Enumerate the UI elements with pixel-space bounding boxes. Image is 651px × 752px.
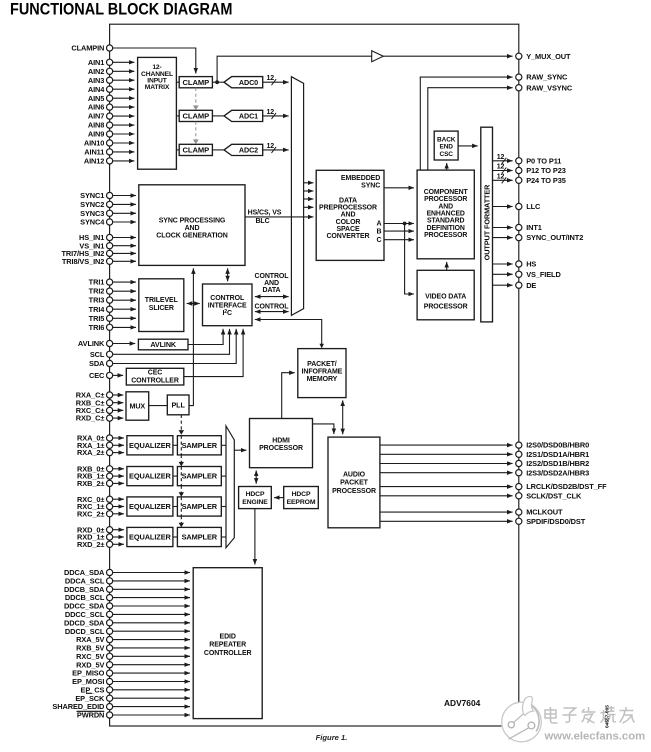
svg-text:CLAMPIN: CLAMPIN [71,44,104,53]
pin RXB_1 [107,473,113,479]
svg-text:I2C: I2C [222,309,232,317]
svg-text:CONTROL: CONTROL [255,273,290,280]
svg-text:OUTPUT FORMATTER: OUTPUT FORMATTER [482,184,491,261]
video input mux bar [291,77,303,316]
svg-text:SYNC2: SYNC2 [80,200,104,209]
svg-text:ADV7604: ADV7604 [444,698,481,708]
svg-text:EQUALIZER: EQUALIZER [129,533,172,542]
wire AVLINK to I2C [188,329,223,345]
block equalizer A [127,436,173,455]
svg-text:EQUALIZER: EQUALIZER [129,441,172,450]
block sync processing and clock generation [139,185,245,266]
pin SCLK/DST_CLK [516,493,522,499]
svg-text:12: 12 [497,154,505,161]
wire CEC pin to controller [113,374,123,376]
svg-text:PROCESSOR: PROCESSOR [424,196,467,203]
dashed clamp chain arrows [195,88,197,108]
pin RXC_C [107,407,113,413]
svg-text:MCLKOUT: MCLKOUT [526,508,563,517]
pin I2S3/DSD2A/HBR3 [516,470,522,476]
pin DDCB_SDA [107,586,113,592]
pin RAW_VSYNC [516,85,522,91]
svg-text:SCL: SCL [90,350,105,359]
pin AIN9 [107,131,113,137]
svg-text:AIN12: AIN12 [84,157,104,166]
dashed clock through sampler [180,467,182,486]
pin TRI6 [107,324,113,330]
svg-text:CEC: CEC [89,371,105,380]
watermark chinese characters [545,707,558,723]
svg-text:AND: AND [264,280,279,287]
block sampler C [177,497,221,516]
svg-text:AIN3: AIN3 [88,76,104,85]
pin SYNC_OUT/INT2 [516,235,522,241]
wire equalizer to sampler C [173,506,178,508]
wires SYNC1-SYNC4 [113,195,136,197]
wire control bus to mux [255,311,289,313]
svg-text:12: 12 [497,164,505,171]
wire HDMI processor to audio packet processor [313,424,334,434]
pin SCL [107,351,113,357]
svg-text:Figure 1.: Figure 1. [316,733,348,742]
svg-text:TRILEVEL: TRILEVEL [145,297,179,304]
svg-text:FUNCTIONAL BLOCK DIAGRAM: FUNCTIONAL BLOCK DIAGRAM [10,0,232,18]
hdmi channel mux bar [226,426,234,548]
svg-text:12: 12 [267,75,275,82]
pin AIN7 [107,113,113,119]
svg-text:VIDEO DATA: VIDEO DATA [425,294,466,301]
wire HS [493,263,513,265]
svg-text:04557-005: 04557-005 [605,705,611,728]
wire HDCP engine to EDID controller [254,509,256,565]
pin P24 TO P35 [516,177,522,183]
buffer amp on Y_MUX_OUT [372,51,384,62]
svg-text:EDID: EDID [220,633,236,640]
svg-text:MEMORY: MEMORY [307,376,338,383]
wires AIN1-AIN12 to input matrix [113,61,135,63]
pin RXA_0 [107,435,113,441]
wires audio outputs [380,444,513,446]
svg-text:STANDARD: STANDARD [427,218,464,225]
pin VS_IN1 [107,243,113,249]
wire CEC controller to I2C [184,329,243,377]
pin I2S2/DSD1B/HBR2 [516,460,522,466]
pin SHARED_EDID [107,704,113,710]
svg-text:DE: DE [526,281,536,290]
pin TRI7/HS_IN2 [107,250,113,256]
svg-text:P12 TO P23: P12 TO P23 [526,166,566,175]
clamp block CLAMP0 [179,77,212,88]
svg-text:SYNC3: SYNC3 [80,209,104,218]
svg-text:SLICER: SLICER [149,305,174,312]
svg-text:EQUALIZER: EQUALIZER [129,502,172,511]
block trilevel slicer [139,279,184,332]
wire CLAMP2 to ADC2 [212,149,224,151]
wire control and data bus to mux [255,296,289,298]
pin EP_CS [107,687,113,693]
wires RXB pins to equalizer [113,468,124,470]
svg-text:ENHANCED: ENHANCED [427,211,465,218]
svg-text:I2S0/DSD0B/HBR0: I2S0/DSD0B/HBR0 [526,441,589,450]
pin RXB_5V [107,645,113,651]
pin AIN10 [107,140,113,146]
block PLL [167,395,189,415]
pin AIN6 [107,104,113,110]
block AVLINK [138,339,188,350]
svg-text:HS: HS [526,260,536,269]
svg-text:ENGINE: ENGINE [242,499,268,506]
svg-text:PROCESSOR: PROCESSOR [332,488,376,495]
wire RAW_VSYNC [428,88,513,170]
svg-text:RXD_2±: RXD_2± [77,540,104,549]
wire A to component processor [384,223,414,225]
pin RXB_2 [107,480,113,486]
svg-text:PACKET: PACKET [340,480,368,487]
svg-text:SAMPLER: SAMPLER [182,472,218,481]
adc block ADC0 [224,77,263,88]
svg-text:C: C [377,237,382,244]
pin RAW_SYNC [516,74,522,80]
svg-text:PROCESSOR: PROCESSOR [424,304,468,311]
svg-text:SYNC PROCESSING: SYNC PROCESSING [159,217,226,224]
wire hdmi mux to hdmi processor [234,449,246,451]
svg-text:SCLK/DST_CLK: SCLK/DST_CLK [526,491,582,500]
pin RXD_0 [107,527,113,533]
pin TRI3 [107,297,113,303]
wires RXD pins to equalizer [113,529,124,531]
pin AIN12 [107,158,113,164]
pin DDCD_SCL [107,628,113,634]
block equalizer C [127,497,173,516]
wire SDA to I2C [113,329,237,364]
pin SPDIF/DSD0/DST [516,518,522,524]
svg-text:DEFINITION: DEFINITION [427,225,465,232]
dashed clock through sampler [180,497,182,516]
svg-text:TRI8/VS_IN2: TRI8/VS_IN2 [62,257,104,266]
pin AIN5 [107,95,113,101]
svg-text:12: 12 [267,143,275,150]
wires HS_IN1 VS_IN1 TRI7/HS_IN2 TRI8/VS_IN2 [113,237,136,239]
pin AIN8 [107,122,113,128]
block MUX [126,392,149,420]
svg-text:CLAMP: CLAMP [183,78,210,87]
pin RXB_C [107,400,113,406]
wire sync processing to control interface bidirectional [227,268,229,281]
block audio packet processor [328,437,380,528]
svg-text:ADC1: ADC1 [239,112,258,121]
svg-text:SAMPLER: SAMPLER [182,533,218,542]
pin LRCLK/DSD2B/DST_FF [516,484,522,490]
wire Y_MUX_OUT line [217,56,372,82]
svg-text:INFOFRAME: INFOFRAME [302,369,343,376]
svg-text:TRI1: TRI1 [89,278,105,287]
pin I2S0/DSD0B/HBR0 [516,442,522,448]
pin DDCC_SCL [107,611,113,617]
pin DDCB_SCL [107,595,113,601]
pin RXD_5V [107,662,113,668]
svg-text:COLOR: COLOR [336,219,361,226]
svg-text:TRI4: TRI4 [89,305,106,314]
wire ADC0 12-bit bus to mux [263,81,289,83]
svg-text:AIN9: AIN9 [88,130,104,139]
wire INT1 [493,227,513,229]
pin Y_MUX_OUT [516,53,522,59]
svg-text:EQUALIZER: EQUALIZER [129,472,172,481]
block HDCP engine [239,487,272,509]
pin RXC_5V [107,653,113,659]
wire C to component processor [384,239,414,241]
junction dot on A bus [403,222,407,226]
pin DDCA_SCL [107,578,113,584]
svg-text:LLC: LLC [526,202,541,211]
pin TRI5 [107,315,113,321]
pin LLC [516,203,522,209]
wire video data processor to component processor [446,262,448,270]
svg-text:AIN1: AIN1 [88,58,104,67]
svg-text:AVLINK: AVLINK [150,340,177,349]
pin RXA_5V [107,637,113,643]
block back end CSC [434,131,458,160]
svg-text:CSC: CSC [439,151,453,158]
wire sampler A to hdmi mux [221,444,226,446]
pin AIN11 [107,149,113,155]
svg-text:REPEATER: REPEATER [209,642,246,649]
svg-text:I2S2/DSD1B/HBR2: I2S2/DSD1B/HBR2 [526,459,589,468]
svg-text:RXD_C±: RXD_C± [76,414,105,423]
wire PLL to sync processing [189,268,193,405]
wires RXA pins to equalizer [113,437,124,439]
wires TRI1-TRI6 [113,281,136,283]
pin RXD_1 [107,534,113,540]
svg-text:CLOCK GENERATION: CLOCK GENERATION [156,233,227,240]
svg-text:RXB_2±: RXB_2± [77,479,104,488]
svg-text:PROCESSOR: PROCESSOR [259,445,303,452]
svg-text:A: A [377,221,382,228]
block sampler B [177,467,221,486]
svg-text:HS/CS, VS: HS/CS, VS [248,209,282,216]
pin SDA [107,360,113,366]
block component processor [417,170,474,259]
pin P12 TO P23 [516,167,522,173]
wire equalizer to sampler D [173,536,178,538]
block control interface I2C [203,284,253,326]
svg-text:END: END [439,144,453,151]
wire A bus to video data processor [405,224,414,295]
svg-text:B: B [377,228,382,235]
pin TRI4 [107,306,113,312]
svg-text:CLAMP: CLAMP [183,146,210,155]
svg-text:12: 12 [267,109,275,116]
dashed clock between samplers [180,455,182,464]
svg-text:VS_FIELD: VS_FIELD [526,270,561,279]
svg-text:PWRDN: PWRDN [77,711,104,720]
svg-text:CLAMP: CLAMP [183,112,210,121]
block output formatter [481,127,493,322]
block HDCP EEPROM [284,487,319,509]
svg-text:12: 12 [497,173,505,180]
svg-text:P24 TO P35: P24 TO P35 [526,176,566,185]
block CEC controller [126,368,184,385]
wire CLAMP0 to ADC0 [212,81,224,83]
svg-text:AIN2: AIN2 [88,67,104,76]
wire HDMI processor to packet memory [282,373,295,419]
pin MCLKOUT [516,509,522,515]
svg-text:AIN11: AIN11 [84,148,104,157]
svg-text:Y_MUX_OUT: Y_MUX_OUT [526,52,571,61]
pin AIN3 [107,77,113,83]
svg-text:CONTROLLER: CONTROLLER [204,650,252,657]
wire MUX to PLL [149,405,168,407]
svg-text:RAW_SYNC: RAW_SYNC [526,73,568,82]
svg-text:AIN10: AIN10 [84,139,104,148]
wire equalizer to sampler A [173,444,178,446]
svg-text:AVLINK: AVLINK [78,339,105,348]
svg-text:COMPONENT: COMPONENT [424,189,469,196]
pin DDCD_SDA [107,620,113,626]
watermark logo circle [502,696,542,741]
adc block ADC2 [224,144,263,155]
wire embedded sync to component processor [384,187,414,189]
pin RXD_C [107,415,113,421]
pin AIN2 [107,68,113,74]
svg-text:EEPROM: EEPROM [287,499,316,506]
svg-text:AND: AND [438,203,453,210]
pin DDCC_SDA [107,603,113,609]
pin RXA_C [107,392,113,398]
wires DDC/EP pins to EDID controller [113,572,190,574]
svg-text:PACKET/: PACKET/ [307,361,337,368]
wire component processor to back end CSC [446,163,448,170]
svg-text:www.elecfans.com: www.elecfans.com [544,730,646,742]
svg-text:SAMPLER: SAMPLER [182,441,218,450]
pin AIN1 [107,59,113,65]
adc block ADC1 [224,110,263,121]
mux outputs to data preprocessor [304,182,314,184]
pin RXC_0 [107,496,113,502]
pin RXB_0 [107,466,113,472]
svg-text:RXC_2±: RXC_2± [77,509,104,518]
pin HS [516,261,522,267]
dashed clock through sampler [180,436,182,455]
wire matrix to CLAMP0 [176,81,179,83]
svg-text:BLC: BLC [255,218,269,225]
pin SYNC4 [107,219,113,225]
wire B to component processor [384,230,414,232]
svg-text:HDCP: HDCP [292,491,311,498]
clamp block CLAMP2 [179,144,212,155]
wire matrix to CLAMP2 [176,149,179,151]
svg-text:SYNC1: SYNC1 [80,191,104,200]
svg-text:ADC0: ADC0 [239,78,258,87]
svg-text:CONTROLLER: CONTROLLER [131,377,179,384]
svg-text:SAMPLER: SAMPLER [182,502,218,511]
dashed PLL clock to samplers [180,415,182,432]
svg-text:PREPROCESSOR: PREPROCESSOR [319,205,377,212]
svg-text:TRI5: TRI5 [89,314,105,323]
svg-text:SPDIF/DSD0/DST: SPDIF/DSD0/DST [526,517,586,526]
wire sampler C to hdmi mux [221,506,226,508]
wire ADC2 12-bit bus to mux [263,149,289,151]
block HDMI processor [250,419,313,468]
svg-text:I2S3/DSD2A/HBR3: I2S3/DSD2A/HBR3 [526,468,589,477]
pin RXD_2 [107,541,113,547]
pin P0 TO P11 [516,158,522,164]
pin INT1 [516,224,522,230]
block sampler D [177,527,221,546]
pin DDCA_SDA [107,569,113,575]
dashed clock between samplers [180,516,182,524]
block sampler A [177,436,221,455]
wire CLAMP1 to ADC1 [212,115,224,117]
block 12-channel input matrix [138,57,177,169]
svg-text:P0 TO P11: P0 TO P11 [526,156,561,165]
wire SYNC_OUT/INT2 [493,237,513,239]
pin RXA_2 [107,450,113,456]
svg-text:SYNC4: SYNC4 [80,218,105,227]
wire sampler D to hdmi mux [221,536,226,538]
block equalizer D [127,527,173,546]
svg-text:AUDIO: AUDIO [343,471,366,478]
wires RXA_C to RXD_C into MUX [113,394,124,396]
pin HS_IN1 [107,234,113,240]
block packet/infoframe memory [298,349,346,398]
wire equalizer to sampler B [173,475,178,477]
wire trilevel slicer to control interface bidirectional [187,303,200,305]
svg-text:EMBEDDED: EMBEDDED [341,175,380,182]
pin RXA_1 [107,442,113,448]
junction dot ADC0 output [215,80,219,84]
pin AIN4 [107,86,113,92]
pin TRI8/VS_IN2 [107,258,113,264]
svg-text:LRCLK/DSD2B/DST_FF: LRCLK/DSD2B/DST_FF [526,482,607,491]
wire HDMI processor to HDCP engine bidirectional [255,471,257,484]
svg-text:CEC: CEC [148,370,163,377]
pin DE [516,282,522,288]
pin EP_SCK [107,695,113,701]
pin SYNC2 [107,201,113,207]
pin SYNC1 [107,192,113,198]
pin TRI2 [107,288,113,294]
pin VS_FIELD [516,271,522,277]
block video data processor [417,270,474,320]
wire LLC [493,206,513,208]
svg-text:BACK: BACK [437,136,456,143]
pin RXC_2 [107,511,113,517]
svg-text:PLL: PLL [171,401,185,410]
svg-text:AIN8: AIN8 [88,121,104,130]
svg-text:INTERFACE: INTERFACE [208,303,247,310]
svg-text:CONVERTER: CONVERTER [326,233,369,240]
svg-text:TRI3: TRI3 [89,296,105,305]
wires RXC pins to equalizer [113,498,124,500]
wire RAW_SYNC [420,77,512,170]
svg-text:SPACE: SPACE [336,226,360,233]
svg-text:RAW_VSYNC: RAW_VSYNC [526,83,573,92]
block EDID repeater controller [193,568,262,719]
clamp block CLAMP1 [179,110,212,121]
svg-text:MATRIX: MATRIX [145,84,170,91]
wire CLAMPIN to CLAMP0 [113,48,196,74]
wire control to packet memory and I2C [255,320,322,346]
wire SCL to I2C [113,329,230,354]
pin CEC [107,372,113,378]
block data preprocessor and color space converter [316,170,384,260]
svg-text:CONTROL: CONTROL [210,295,245,302]
wire ADC1 12-bit bus to mux [263,115,289,117]
svg-text:DATA: DATA [262,287,280,294]
svg-text:SDA: SDA [89,359,105,368]
chip boundary ADV7604 [110,24,519,726]
